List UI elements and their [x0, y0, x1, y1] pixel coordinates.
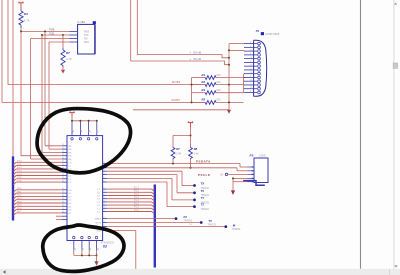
svg-text:220: 220 — [216, 89, 221, 92]
svg-text:P1.3: P1.3 — [17, 171, 22, 173]
svg-text:4.7k: 4.7k — [24, 19, 30, 23]
svg-text:4.7K: 4.7K — [66, 57, 72, 61]
svg-text:R2: R2 — [202, 80, 206, 84]
svg-text:R7: R7 — [66, 51, 70, 55]
svg-text:P0.3: P0.3 — [17, 198, 22, 200]
svg-text:RS: RS — [68, 156, 72, 158]
svg-text:R5: R5 — [202, 98, 206, 102]
svg-text:MOB3: MOB3 — [172, 98, 181, 102]
svg-text:P1.0: P1.0 — [134, 210, 139, 212]
svg-text:P1.5: P1.5 — [134, 194, 139, 196]
svg-text:P1.4: P1.4 — [17, 174, 22, 176]
svg-text:2.4K: 2.4K — [176, 153, 181, 156]
svg-text:TCK: TCK — [49, 31, 54, 35]
svg-text:TDI: TDI — [84, 38, 88, 41]
svg-text:MOB2: MOB2 — [172, 80, 181, 84]
svg-text:P0.4: P0.4 — [17, 201, 22, 203]
svg-text:U-4B1: U-4B1 — [77, 20, 85, 24]
svg-text:MOSI: MOSI — [95, 223, 101, 225]
svg-text:P1.1: P1.1 — [134, 207, 139, 209]
svg-text:220: 220 — [216, 74, 221, 77]
svg-text:5V+B: 5V+B — [194, 50, 202, 54]
svg-text:P1.2: P1.2 — [134, 203, 139, 205]
svg-text:F2: F2 — [184, 215, 188, 219]
svg-text:P1.6: P1.6 — [17, 180, 22, 182]
svg-text:220: 220 — [216, 81, 221, 84]
svg-text:R1: R1 — [202, 73, 206, 77]
svg-text:PSCLK: PSCLK — [198, 173, 211, 177]
svg-text:CONN DB15: CONN DB15 — [265, 33, 280, 36]
svg-text:2.4K: 2.4K — [194, 153, 199, 156]
svg-text:TMS: TMS — [84, 31, 89, 34]
svg-text:T3: T3 — [201, 203, 205, 207]
svg-text:TDO: TDO — [84, 41, 89, 44]
svg-text:P3: P3 — [250, 154, 254, 158]
svg-text:P0.0: P0.0 — [17, 188, 22, 190]
svg-text:P0.7: P0.7 — [17, 211, 22, 213]
svg-text:RS: RS — [68, 149, 72, 151]
svg-text:RS: RS — [68, 159, 72, 161]
svg-text:P0.5: P0.5 — [17, 205, 22, 207]
svg-text:PSDATA: PSDATA — [196, 160, 211, 164]
svg-text:P1.2: P1.2 — [17, 167, 22, 169]
svg-text:T3: T3 — [208, 219, 212, 223]
svg-text:P1.3: P1.3 — [134, 200, 139, 202]
svg-text:P0.1: P0.1 — [17, 191, 22, 193]
svg-text:P1.6: P1.6 — [134, 191, 139, 193]
svg-text:TMS: TMS — [49, 28, 55, 32]
svg-text:T3: T3 — [201, 189, 205, 193]
svg-text:P1.5: P1.5 — [17, 177, 22, 179]
svg-text:TPAD41: TPAD41 — [201, 208, 210, 211]
svg-text:P0.2: P0.2 — [17, 195, 22, 197]
svg-text:5V+B: 5V+B — [194, 57, 202, 61]
svg-text:R4: R4 — [24, 12, 28, 16]
svg-text:RS: RS — [68, 146, 72, 148]
svg-text:R8: R8 — [194, 147, 198, 151]
svg-text:TPAD71: TPAD71 — [208, 224, 217, 227]
svg-text:SCK: SCK — [97, 231, 102, 233]
svg-text:R3: R3 — [202, 88, 206, 92]
svg-text:220: 220 — [216, 99, 221, 102]
svg-text:P1.1: P1.1 — [17, 164, 22, 166]
svg-text:CON5: CON5 — [259, 154, 266, 157]
svg-text:R7: R7 — [176, 147, 180, 151]
svg-text:TPAD81: TPAD81 — [232, 228, 241, 231]
svg-text:U2: U2 — [103, 244, 107, 248]
svg-text:XTAL1: XTAL1 — [94, 218, 101, 221]
svg-text:P1: P1 — [256, 29, 260, 33]
svg-text:P1.0: P1.0 — [17, 161, 22, 163]
svg-text:RS: RS — [68, 152, 72, 154]
svg-text:P1.7: P1.7 — [134, 187, 139, 189]
svg-text:P1.4: P1.4 — [134, 197, 139, 199]
svg-text:P0.6: P0.6 — [17, 208, 22, 210]
